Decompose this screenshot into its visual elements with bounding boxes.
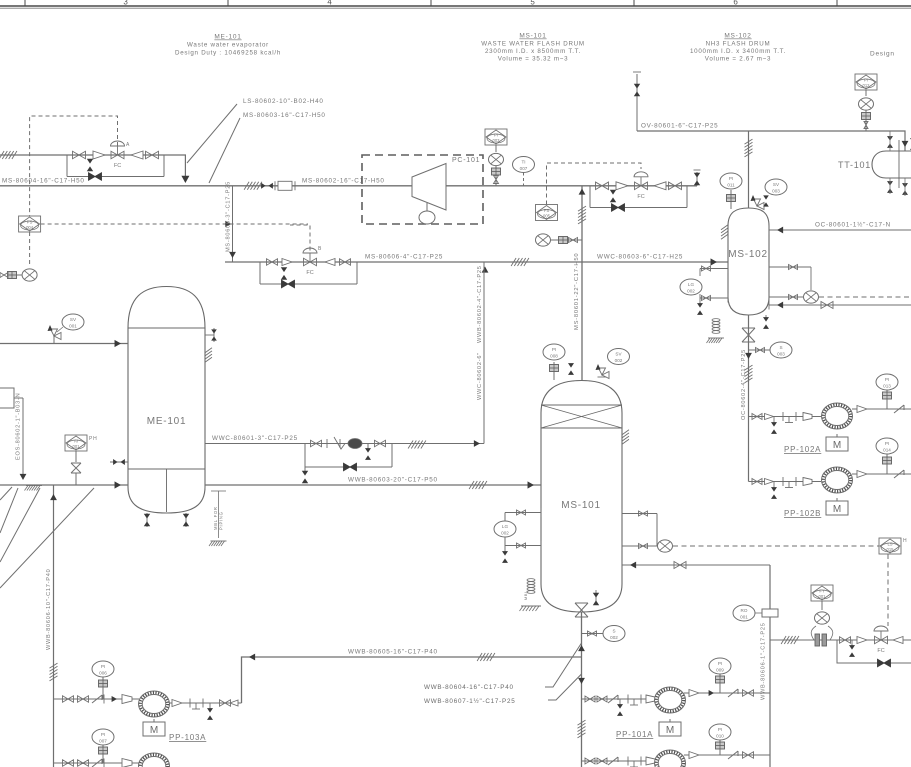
TT valve box [862, 111, 871, 132]
grid number 4 [327, 0, 332, 7]
pump branch A y416 [749, 416, 822, 418]
black bypass valve 4 [344, 463, 357, 471]
ME-101 right vent stub [205, 328, 217, 342]
svg-text:Volume = 2.67 m~3: Volume = 2.67 m~3 [705, 56, 771, 63]
pipe x770 vertical [769, 565, 771, 767]
svg-text:NH3 FLASH DRUM: NH3 FLASH DRUM [706, 41, 771, 48]
svg-text:PP-102B: PP-102B [784, 509, 821, 518]
ME-101 bottom drain 1 [144, 513, 150, 527]
PH valve [71, 451, 81, 485]
PP-102A reducer [803, 413, 821, 421]
svg-text:WWB-80606-1"-C17-P25: WWB-80606-1"-C17-P25 [761, 622, 767, 700]
label WWC-80603 [597, 254, 683, 261]
svg-text:LG: LG [688, 282, 695, 287]
svg-text:005: 005 [543, 213, 551, 218]
branch left x590 [589, 186, 591, 208]
check tilt R [334, 437, 345, 449]
break hatch left end y155 [0, 151, 17, 159]
svg-text:FC: FC [114, 163, 121, 169]
MS-101 left tap upper [505, 508, 541, 517]
svg-text:007: 007 [99, 739, 107, 744]
gate valve 1 [73, 151, 86, 159]
svg-text:OC-80601-1½"-C17-N: OC-80601-1½"-C17-N [815, 221, 891, 229]
gate valve 2 [93, 151, 105, 159]
svg-text:H: H [903, 538, 907, 544]
recirc branch right [391, 444, 393, 468]
PP-102B reducer [803, 478, 821, 486]
TT valve bottom 1 [887, 178, 893, 194]
leader b [0, 488, 18, 533]
arrow into MS-102 right [769, 226, 783, 235]
gate valve y565 [674, 562, 686, 569]
MS-101 top nozzle PI-008 [550, 362, 559, 380]
flex taps [811, 626, 833, 640]
instrument PI-009 [709, 658, 731, 693]
gate valve y186 b [669, 182, 682, 190]
LG-002a drain [502, 546, 508, 563]
svg-text:MS-80603-16"-C17-H50: MS-80603-16"-C17-H50 [243, 112, 326, 119]
tap box x563 [551, 237, 568, 244]
inline spec box [275, 181, 295, 190]
pump PP-102A motor [826, 434, 848, 451]
leader c [0, 488, 40, 562]
svg-text:MS-80604-16"-C17-H50: MS-80604-16"-C17-H50 [2, 178, 85, 185]
pipe MS-101 bottom outlet [581, 612, 583, 767]
pipe WWC-80601 y444 [205, 443, 484, 445]
svg-text:TT-101: TT-101 [838, 160, 871, 170]
arrow down x748 [745, 353, 752, 359]
MS-101 left tap lower [505, 541, 541, 550]
grid number 3 [123, 0, 128, 7]
label OC-80602 vertical [741, 349, 747, 420]
border tick 2 [227, 0, 229, 6]
valve manifold branch left [66, 155, 68, 177]
label riser vertical [226, 181, 232, 252]
svg-text:PS: PS [544, 208, 550, 213]
relief SV-003 [751, 195, 765, 210]
transmitter circle x543 [536, 234, 551, 246]
label PC-101 [452, 157, 480, 164]
label TT-101 [838, 160, 871, 170]
label LS-80602 [243, 98, 324, 105]
pipe MS-102 bottom outlet [748, 315, 750, 482]
PP-101A suction valves [585, 695, 618, 703]
label EOS vertical [16, 393, 22, 460]
label WWB-80606-10 vertical [46, 569, 52, 650]
pump PP-101A motor [659, 719, 681, 736]
dashed box PC-101 [362, 155, 483, 224]
LG-002b drain [697, 298, 703, 315]
control valve FC A [111, 141, 125, 169]
title MS-101 [481, 33, 585, 63]
grid number 5 [530, 0, 535, 7]
svg-text:SV: SV [773, 182, 780, 187]
cone station [857, 637, 867, 644]
title MS-102 [690, 33, 786, 63]
drain stub station B [281, 267, 287, 279]
station B branch right [356, 262, 358, 284]
svg-text:011: 011 [727, 183, 735, 188]
break hatch y444 [408, 441, 426, 449]
label WWB-80603-20 [348, 477, 438, 484]
svg-text:5: 5 [530, 0, 535, 7]
pipe main header MS-80604 y186 [0, 185, 697, 187]
PP-102B ticks [783, 477, 796, 488]
TI dashed tap [523, 173, 525, 186]
svg-text:Design: Design [870, 51, 895, 58]
svg-text:013: 013 [883, 384, 891, 389]
border tick 4 [633, 0, 635, 6]
signal dashed x888 down [887, 554, 889, 626]
PP-102A discharge [852, 405, 911, 413]
pipe PP-103 suction header [50, 485, 57, 767]
pipe return y565 [622, 564, 770, 566]
pump branch 101A y699 [582, 698, 656, 700]
label PP-102A [784, 445, 821, 454]
drain stub R [365, 444, 371, 460]
break hatch y485 [469, 481, 487, 489]
OV vent stub [633, 72, 641, 131]
svg-text:PP-101A: PP-101A [616, 730, 653, 739]
pipe WWB-80605 y657 [242, 657, 582, 703]
arrow right y444 [474, 440, 480, 447]
pipe y305 out [769, 301, 911, 310]
pipe MS feed top-left y155 [0, 155, 185, 178]
svg-text:PI: PI [885, 377, 889, 382]
PP-103A arrow [112, 696, 117, 702]
PP-101A drain [617, 699, 623, 716]
instrument square PS-005 [536, 205, 558, 221]
svg-text:WASTE WATER FLASH DRUM: WASTE WATER FLASH DRUM [481, 41, 585, 48]
svg-text:009: 009 [716, 668, 724, 673]
PP-101A reducer [646, 695, 655, 703]
instrument S-002 [603, 626, 625, 642]
break hatch y186 [244, 182, 262, 190]
black bypass valve 5 [878, 659, 891, 667]
signal dashed horizontal y224 [41, 223, 308, 225]
label WWB-80607 [424, 697, 515, 705]
PP-102B discharge [852, 470, 911, 478]
nozzle tick MS101 left y485 [540, 480, 542, 490]
arrow left y657 [249, 654, 255, 661]
PP-103A reducer [122, 695, 132, 704]
MS-102 anchor [707, 319, 725, 343]
signal dashed level y546 [673, 545, 879, 547]
title Design (right) [870, 51, 895, 58]
pipe feed y344 [0, 343, 128, 345]
MS-101 anchor support [520, 579, 542, 611]
small valve x496 [494, 175, 499, 186]
inline tick pair [261, 183, 273, 189]
svg-text:ME-101: ME-101 [214, 34, 241, 41]
pipe WWB-80603 y485 right [205, 484, 541, 486]
arrow into ME-101 y485 [115, 481, 121, 488]
instrument PI-011 [720, 173, 742, 189]
cone y186 b [654, 182, 666, 190]
svg-text:PI: PI [718, 661, 722, 666]
svg-text:6: 6 [733, 0, 738, 7]
relief valve SV-001 [48, 325, 62, 344]
signal dashed loop B2 [547, 163, 642, 205]
svg-text:WWB-80603-20"-C17-P50: WWB-80603-20"-C17-P50 [348, 477, 438, 484]
orifice RO-001 [762, 609, 778, 617]
svg-text:S: S [779, 345, 782, 350]
branch right x687 [686, 186, 688, 208]
label ME-101 [147, 416, 187, 427]
break hatch y657 [477, 653, 495, 661]
PP-103B suction valves [63, 759, 105, 767]
black bypass valve 2 [612, 204, 625, 212]
svg-text:M: M [666, 725, 674, 736]
label WWC-80602 vertical [477, 265, 483, 400]
svg-text:MS-101: MS-101 [519, 33, 546, 40]
gate valve R1 [311, 440, 322, 447]
arrow down x581 [578, 678, 585, 684]
gate valve R2 [375, 440, 386, 447]
leader line to LS label [187, 104, 237, 163]
valve box below [492, 166, 501, 175]
gate valve y186 a [596, 182, 609, 190]
svg-text:MS-80601-22"-C17-H50: MS-80601-22"-C17-H50 [574, 253, 580, 330]
bypass y207 [590, 207, 687, 209]
svg-text:FC: FC [877, 648, 884, 654]
gate valve B2 [340, 259, 351, 266]
svg-text:MS-102: MS-102 [728, 249, 768, 260]
pipe OC-80601 y230 [769, 229, 911, 231]
svg-text:TI: TI [521, 160, 525, 165]
MS-102 insulation hatch left [721, 225, 728, 240]
compressor PC-101 [412, 164, 446, 211]
level transmitter circle [658, 540, 673, 552]
label B actuator [318, 246, 322, 252]
black bypass valve 3 [282, 280, 295, 288]
instrument SV-003 [765, 179, 787, 195]
instrument PI-014 [876, 438, 898, 474]
label MS-101 [561, 500, 601, 511]
ground at EOS tie-in [25, 486, 43, 491]
drain below y186 station [610, 190, 616, 202]
instrument square PI-003 [485, 129, 507, 145]
transmitter circle TT [859, 98, 874, 110]
arrow down to header [181, 176, 189, 183]
svg-text:M: M [833, 504, 841, 515]
svg-text:001: 001 [69, 324, 77, 329]
label A actuator [126, 142, 130, 148]
PP-101A ticks [628, 695, 641, 706]
ball check dark [348, 439, 362, 449]
svg-text:MBL: MBL [524, 590, 528, 600]
leader a [0, 487, 12, 500]
TT valve top 1 [887, 131, 893, 151]
label PP-102B [784, 509, 821, 518]
svg-text:WWC-80601-3"-C17-P25: WWC-80601-3"-C17-P25 [212, 435, 298, 442]
svg-text:PI: PI [885, 441, 889, 446]
svg-text:001: 001 [73, 444, 81, 449]
nozzle tick ME right y444 [204, 439, 206, 448]
arrow down into TT [902, 141, 909, 147]
pipe MS-80606 y262 [225, 261, 582, 263]
svg-text:RO: RO [741, 608, 748, 613]
pump branch B y481 [749, 481, 822, 483]
svg-text:MS-80602-16"-C17-H50: MS-80602-16"-C17-H50 [302, 178, 385, 185]
MS-102 left tap upper [700, 264, 728, 273]
label OV-80601 [641, 123, 718, 130]
break hatch x748 [745, 365, 753, 383]
cone y186 [616, 182, 628, 190]
svg-text:004: 004 [26, 225, 34, 230]
svg-text:Volume = 35.32 m~3: Volume = 35.32 m~3 [498, 56, 569, 63]
label MS-80601 vertical [574, 253, 580, 330]
valve X MS-102 bottom [742, 328, 755, 342]
cone B2 [325, 259, 335, 266]
vessel MS-102 [728, 208, 769, 315]
svg-text:M: M [150, 725, 158, 736]
svg-text:Design Duty : 10469258 kcal/: Design Duty : 10469258 kcal/h [175, 50, 281, 57]
control valve FC B [303, 248, 317, 276]
svg-text:PP-103A: PP-103A [169, 733, 206, 742]
svg-text:PC-101: PC-101 [452, 157, 480, 164]
svg-text:PS: PS [27, 220, 33, 225]
svg-text:MBL FOR: MBL FOR [213, 506, 218, 530]
svg-text:WWC-80602-6": WWC-80602-6" [477, 352, 483, 400]
svg-text:AI: AI [74, 439, 78, 444]
svg-text:015: 015 [887, 547, 895, 552]
MS-101 insulation hatch right [622, 430, 629, 445]
label MS-80604 [2, 178, 85, 185]
svg-text:010: 010 [716, 734, 724, 739]
svg-text:002: 002 [610, 635, 618, 640]
svg-text:MS-80606-4"-C17-P25: MS-80606-4"-C17-P25 [365, 254, 443, 261]
valve X bottom [575, 603, 588, 617]
svg-text:OV-80601-6"-C17-P25: OV-80601-6"-C17-P25 [641, 123, 718, 130]
pump PP-102A [822, 403, 853, 429]
svg-text:2300mm I.D. x 8500mm T.T.: 2300mm I.D. x 8500mm T.T. [485, 48, 581, 55]
svg-text:MS-101: MS-101 [561, 500, 601, 511]
drain valve below [87, 159, 93, 171]
TT valve bottom 2 [902, 178, 908, 196]
svg-text:PI: PI [718, 727, 722, 732]
svg-text:M: M [833, 440, 841, 451]
S-002 branch [582, 631, 604, 636]
border tick 5 [836, 0, 838, 6]
title ME-101 [175, 34, 281, 57]
label WWB-80604 [424, 684, 514, 691]
svg-text:MS-102: MS-102 [724, 33, 751, 40]
pump branch 101B y761 [582, 760, 656, 762]
level transmitter MS-102 [804, 291, 819, 303]
svg-text:B: B [318, 246, 322, 252]
MS-101 right tap lower [622, 542, 657, 551]
svg-text:LS-80602-10"-B02-H40: LS-80602-10"-B02-H40 [243, 98, 324, 105]
instrument TI-007 [513, 157, 535, 173]
PP-103A suction valves [63, 695, 105, 704]
instrument square PH [65, 435, 97, 451]
svg-text:PI: PI [101, 732, 105, 737]
signal dashed to valve B [290, 225, 310, 251]
svg-text:PP-102A: PP-102A [784, 445, 821, 454]
svg-text:002: 002 [501, 531, 509, 536]
S-003 branch [749, 348, 771, 353]
border top line [0, 6, 911, 8]
label MS-80602 [302, 178, 385, 185]
vent stub x697 [694, 170, 701, 186]
svg-text:003: 003 [493, 138, 501, 143]
instrument SV-001 [57, 314, 84, 332]
transmitter circle x496 [489, 153, 504, 165]
offpage connector EOS [0, 388, 23, 408]
break hatch y640 [781, 636, 799, 644]
label WWB-80606-1 vertical [761, 622, 767, 700]
svg-text:A: A [126, 142, 130, 148]
PP-103A discharge valve [220, 700, 239, 707]
gate valve station 1 [840, 637, 851, 644]
break hatch OV riser [745, 139, 753, 157]
control valve FC C [874, 626, 888, 654]
label WWB-80605 [348, 649, 438, 656]
nozzle tick ME right y485 [204, 480, 206, 490]
vessel ME-101 [128, 287, 205, 514]
gate valve 4 [146, 151, 159, 159]
MS-102 right tap upper [769, 263, 811, 291]
svg-text:PI: PI [494, 133, 498, 138]
border tick 3 [430, 0, 432, 6]
PP-103B reducer [122, 759, 132, 767]
cone B1 [282, 259, 292, 266]
MS-102 bottom drain right [763, 315, 769, 329]
arrow up feed [579, 189, 586, 195]
signal arrow on dashed [225, 221, 231, 227]
label PP-101A [616, 730, 653, 739]
svg-text:SV: SV [615, 352, 622, 357]
svg-text:4: 4 [327, 0, 332, 7]
instrument square PS-004 [19, 216, 41, 232]
tap valve x573 [568, 238, 583, 243]
svg-text:LS: LS [887, 542, 892, 547]
MS-101 top drain pair [568, 363, 574, 375]
MS-102 top PI-011 [727, 190, 736, 209]
arrow up x581 [578, 645, 585, 651]
MS-102 right tap lower [769, 293, 803, 302]
control valve FC B2 [634, 172, 648, 200]
PP-102A suction valves [752, 414, 774, 420]
instrument square LS-H [879, 538, 907, 554]
gate valve 3 [131, 151, 143, 159]
svg-text:008: 008 [550, 354, 558, 359]
tick R [326, 439, 328, 448]
bypass line y176 [67, 176, 164, 178]
leader line to MS label [209, 118, 240, 183]
svg-text:WWB-80606-10"-C17-P40: WWB-80606-10"-C17-P40 [46, 569, 52, 650]
PP-101B suction valves [585, 757, 618, 765]
valve manifold branch right [163, 155, 165, 177]
break hatch y262 [511, 258, 529, 266]
ME-101 insulation hatch right [205, 348, 212, 363]
PP-102B drain [771, 482, 777, 499]
station B branch left [259, 262, 261, 284]
svg-text:002: 002 [615, 358, 623, 363]
arrow into MS-101 y565 [622, 561, 636, 570]
svg-text:006: 006 [99, 671, 107, 676]
pump branch 103A y699 [54, 698, 140, 700]
svg-text:ME-101: ME-101 [147, 416, 187, 427]
instrument PI-008 [543, 344, 565, 360]
leader WWB-80604 [545, 643, 582, 687]
instrument RO-001 [733, 605, 762, 621]
recirc branch left [304, 444, 306, 468]
pump branch 103B y763 [54, 762, 140, 764]
svg-text:012: 012 [863, 83, 871, 88]
drain station [849, 640, 855, 657]
